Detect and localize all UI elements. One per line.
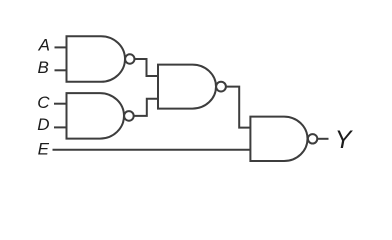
nand gate U1 (inputs A,B) [67,36,126,82]
wire D input stub [54,126,67,128]
nand gate U3 (middle) [158,65,216,109]
wire U3 output to U4 upper input [226,87,251,128]
svg-text:D: D [37,115,49,134]
wire U4 output stub to Y [317,138,328,140]
wire C input stub [54,103,67,105]
bubble U2 output [124,111,134,121]
wire U1 output to U3 upper input [135,59,159,76]
svg-text:B: B [38,58,49,77]
svg-text:Y: Y [335,126,354,154]
wire U2 output to U3 lower input [134,99,158,116]
wire B input stub [55,69,67,71]
svg-text:E: E [38,140,50,159]
bubble U1 output [125,54,134,63]
nand gate U4 (output) [250,117,307,161]
nand gate U2 (inputs C,D) [67,93,125,139]
bubble U3 output [216,82,226,92]
wire E to gate U4 [53,149,251,151]
bubble U4 output [308,134,317,143]
wire A input stub [55,46,67,48]
svg-text:A: A [38,36,50,55]
svg-text:C: C [37,93,50,112]
